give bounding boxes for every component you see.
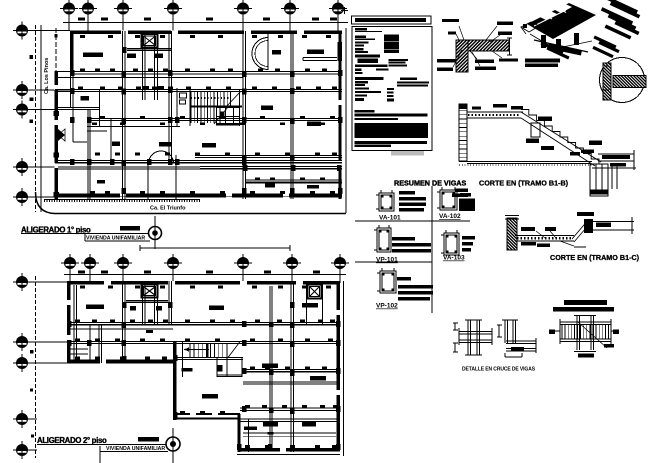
- plan 1 wall x111: [110, 119, 112, 162]
- stair section callout bars mid: [538, 117, 552, 122]
- floor plan 2 - grid bubbles top row: [61, 254, 79, 272]
- plan 2 room label blobs: [86, 305, 104, 310]
- slab-wall T detail hatched slab: [456, 40, 509, 51]
- stair section right footing: [590, 164, 608, 196]
- cross plus detail - dim ticks: [454, 323, 456, 330]
- plan 2 beam y323: [67, 322, 340, 324]
- svg-text:VA-101: VA-101: [379, 215, 401, 222]
- plan 1 room label blobs: [83, 53, 103, 58]
- plan 2 bottom wall right section: [238, 448, 341, 452]
- L corner detail - dim ticks: [498, 325, 500, 337]
- plan 1 door arc top: [252, 38, 268, 70]
- svg-text:VA-102: VA-102: [439, 213, 461, 220]
- plan 2 interior vertical x99: [98, 324, 100, 363]
- plan 1 ticks under top wall: [80, 35, 85, 38]
- svg-text:Ca. Los Pinos: Ca. Los Pinos: [44, 58, 50, 94]
- stair section ladder column: [459, 104, 467, 161]
- beam VA-102 label bars: [460, 193, 471, 197]
- plan 1 left grid bubbles: [13, 22, 31, 40]
- stair 1 baluster dots row: [191, 97, 231, 99]
- plan 1 beam y181 right: [246, 179, 342, 181]
- cross beam detail right - vertical band: [576, 315, 578, 350]
- stair section diagonal stringer: [521, 112, 601, 162]
- plan 1 left wall top segment: [70, 31, 74, 72]
- stair 2 left wall: [182, 342, 184, 377]
- svg-text:VIVIENDA UNIFAMILIAR: VIVIENDA UNIFAMILIAR: [106, 446, 165, 452]
- beam VP-101 icon: [377, 228, 391, 252]
- street line right of plan 2: [343, 281, 345, 456]
- plan 1 small room bottom wall y108: [55, 107, 100, 109]
- cross beam detail right - diagonal leader: [578, 322, 607, 348]
- stair section right column lines: [611, 165, 613, 189]
- stair 2 arrow line: [184, 349, 209, 351]
- plan 2 main interior vertical x123: [122, 281, 124, 363]
- plan 1 bottom wall: [55, 194, 343, 198]
- plan 2 left grid bubbles: [13, 273, 31, 291]
- beam VA-103 icon: [444, 233, 459, 255]
- stair 1 treads: [190, 92, 192, 106]
- plan 2 partial lines left-bottom: [67, 348, 88, 350]
- title 2 detail circle: [166, 437, 180, 451]
- corte tramo2 black block: [584, 219, 593, 233]
- L corner detail - horizontal: [506, 340, 536, 342]
- cross plus detail - horizontal: [459, 331, 492, 333]
- stair 1 mid beam: [190, 106, 242, 108]
- plan 1 right wall: [339, 31, 342, 199]
- plan 1 ticks on beam y90: [78, 87, 83, 90]
- isometric beams below: [541, 35, 546, 48]
- svg-text:RESUMEN DE VIGAS: RESUMEN DE VIGAS: [394, 179, 466, 188]
- plan 2 top wall: [67, 281, 340, 285]
- plan 2 right wall: [337, 281, 341, 452]
- beam VP-102 icon: [380, 271, 396, 293]
- cross beam detail right - horizontal band: [560, 321, 611, 323]
- floor plan 1 - grid bubbles top row: [60, 0, 78, 18]
- plan 2 ticks on top wall underside: [80, 286, 85, 289]
- svg-text:VIVIENDA UNIFAMILIAR: VIVIENDA UNIFAMILIAR: [86, 236, 145, 242]
- plan 1 beam y72: [70, 71, 342, 73]
- plan 1 corridor wall y167 left: [58, 166, 200, 168]
- corte tramo2 left hatched column: [507, 218, 517, 250]
- street line right of plan 1: [345, 28, 347, 213]
- plan 2 inner left wall pair: [73, 285, 75, 363]
- plan 2 shaft walls: [142, 281, 144, 324]
- plan 2 step wall vertical x173: [173, 342, 177, 420]
- stair section top landing: [467, 111, 523, 113]
- cross beam detail right - bottom bar: [578, 354, 594, 358]
- beam VA-103 label bars: [462, 236, 475, 240]
- legend bars above cross detail: [564, 300, 607, 305]
- stair 2 dark center rail: [206, 343, 209, 358]
- stair 1 diagonal: [226, 91, 241, 107]
- plan 2 beam y358 landing top: [173, 357, 243, 359]
- T detail label bars: [442, 19, 459, 22]
- T detail dim line right: [509, 38, 511, 55]
- plan 1 sidewalk hatch bottom: [44, 199, 200, 201]
- two legend bars under isometric: [525, 59, 560, 63]
- stair shaft walls plan 1: [142, 31, 144, 100]
- plan 1 wall chunks at beam crossings: [70, 70, 75, 76]
- small bars below resumen: [455, 189, 468, 193]
- stair 2 diagonal: [228, 341, 241, 358]
- plan 2 beam y370: [243, 369, 340, 371]
- stair section callout bars top: [493, 104, 507, 108]
- stair section ground line: [459, 161, 592, 163]
- isometric slab left edge: [521, 22, 539, 34]
- stair 1 center line and arrow: [200, 106, 239, 108]
- corte tramo2 right beam: [592, 221, 634, 223]
- plan 2 interior vertical x169: [168, 281, 170, 324]
- plan 1 interior vertical wall x177: [176, 88, 178, 126]
- plan 1 lower-left room walls: [147, 164, 149, 199]
- beam VA-101 label bars: [399, 191, 415, 195]
- svg-text:ALIGERADO 2° piso: ALIGERADO 2° piso: [37, 436, 107, 445]
- bath fixtures plan 1: [180, 93, 187, 98]
- stair 2 treads: [189, 343, 191, 357]
- L corner detail - black bar: [511, 347, 524, 351]
- plan 2 beam y383: [243, 381, 340, 383]
- svg-text:VP-102: VP-102: [376, 303, 398, 310]
- plan 1 interior vertical wall x99: [99, 89, 101, 126]
- plan 1 left wall lower segment: [55, 72, 59, 200]
- plan 1 extra ticks beam y119: [92, 123, 97, 126]
- plan 1 left wall jog at y72: [55, 71, 71, 73]
- beam VP-102 label bars: [397, 277, 411, 281]
- corte tramo2 callout bars: [521, 227, 535, 231]
- plan 2 wall under shaft: [126, 300, 168, 302]
- svg-text:CORTE EN (TRAMO B1-C): CORTE EN (TRAMO B1-C): [550, 253, 640, 262]
- spec text bars: [355, 28, 367, 31]
- spec panel border: [352, 27, 432, 151]
- plan 2 thin lines y433: [243, 432, 336, 434]
- plan 1 beam y162: [55, 160, 342, 162]
- faint stamp under panel: [391, 151, 424, 156]
- plan 2 bottom wall mid section: [173, 413, 240, 415]
- plan 1 left wall thin continuation: [70, 72, 72, 108]
- plan 1 bottom wall white split: [74, 195, 338, 197]
- stair 2 landing box: [217, 358, 242, 377]
- detail circle magnifier: [600, 58, 645, 103]
- plan 2 interior vertical x90: [89, 324, 91, 363]
- street curve bottom and Ca. El Triunfo line: [36, 192, 347, 214]
- T detail leader lines: [459, 26, 464, 40]
- beam schedule divider lines: [431, 186, 433, 313]
- corte tramo2 steps up: [572, 219, 589, 239]
- plan 1 right wall chunk upper: [338, 42, 343, 61]
- corte tramo2 landing slab: [515, 235, 574, 237]
- plan 2 interior vertical x291: [290, 281, 292, 452]
- plan 1 interior vertical wall x291: [290, 31, 292, 199]
- plan 1 door arc bottom: [149, 151, 174, 164]
- plan 1 stair well walls: [189, 89, 191, 126]
- beam VA-101 icon: [379, 193, 394, 211]
- plan 2 interior vertical x248 bottom: [248, 419, 250, 452]
- plan 1 door jamb line x268: [267, 34, 269, 70]
- cross beam detail right - side squares: [549, 330, 555, 335]
- plan 2 beam y420: [240, 418, 340, 420]
- plan 2 beam y342: [67, 341, 340, 343]
- plan 1 top wall: [70, 31, 342, 35]
- plan 2 bottom wall left section: [67, 360, 176, 364]
- isometric slanted callout bars lower: [540, 41, 563, 54]
- svg-text:VP-101: VP-101: [376, 257, 398, 264]
- plan 1 beam y157: [195, 155, 342, 157]
- svg-text:Ca. El Triunfo: Ca. El Triunfo: [150, 206, 186, 212]
- stair section steps: [521, 110, 599, 165]
- plan 1 wall under shaft y50: [127, 48, 172, 50]
- spec panel title box: [352, 16, 432, 24]
- plan 1 left small dim blobs: [30, 55, 34, 59]
- plan 2 left vertical dim line: [35, 276, 37, 458]
- plan 1 dimension text ticks: [78, 18, 85, 21]
- plan 2 step wall vertical x237: [238, 414, 241, 452]
- plan 1 window sill lines right room: [303, 57, 337, 59]
- svg-text:CORTE EN (TRAMO B1-B): CORTE EN (TRAMO B1-B): [479, 179, 569, 188]
- dimension bracket between plans: [140, 247, 290, 249]
- plan 2 beam y409: [240, 407, 340, 409]
- slab-wall T detail hatched column: [456, 40, 468, 72]
- plan 1 beam y119: [87, 118, 342, 120]
- title 1 detail circle: [149, 227, 162, 240]
- isometric slanted callout bars right: [602, 0, 638, 14]
- plan 2 left wall: [67, 281, 71, 364]
- plan 1 column ticks along beams: [80, 69, 85, 72]
- plan 1 main interior vertical wall x123: [122, 31, 124, 199]
- cross beam detail right - stirrup hatch: [561, 325, 563, 340]
- plan 2 shaft x-box: [142, 285, 158, 298]
- beam VA-102 icon: [440, 190, 457, 210]
- plan 1 patio notch: [72, 108, 74, 142]
- plan 2 column ticks along beams: [75, 320, 80, 323]
- plan 1 top dimension line: [63, 22, 348, 24]
- property line upper: [55, 28, 57, 71]
- stair section right beam: [598, 153, 634, 155]
- plan 2 top dimension line: [64, 274, 346, 276]
- survey cross mark: [341, 10, 348, 12]
- plan 2 dimension ticks: [78, 271, 85, 274]
- cross plus detail - vertical: [467, 320, 469, 355]
- shaft x-box plan 1: [142, 34, 158, 48]
- plan 2 shaft2 x-box: [308, 285, 322, 299]
- L corner detail - vertical: [504, 320, 506, 343]
- plan 1 interior vertical wall x88: [87, 110, 89, 199]
- plan 2 shaft2 walls: [306, 281, 308, 324]
- svg-text:DETALLE EN CRUCE DE VIGAS: DETALLE EN CRUCE DE VIGAS: [462, 367, 536, 373]
- plan 1 beam y168 right: [200, 166, 342, 168]
- stair 1 landing box: [217, 108, 240, 126]
- door bowtie symbol on property line: [58, 129, 65, 141]
- plan 1 interior vertical wall x243: [242, 31, 244, 199]
- plan 1 beam y90: [55, 89, 342, 91]
- plan 2 interior vertical x270: [269, 286, 271, 448]
- plan 1 left wall chunks: [54, 111, 60, 116]
- plan 2 wall chunks at beam crossings: [67, 321, 72, 327]
- plan 2 left small dim blobs: [30, 350, 34, 354]
- isometric slab detail: [527, 3, 596, 40]
- plan 1 interior vertical wall x169: [168, 31, 170, 165]
- beam VP-101 label bars: [392, 237, 415, 241]
- street lines Ca. Los Pinos: [35, 25, 37, 212]
- svg-text:VA-103: VA-103: [443, 255, 465, 262]
